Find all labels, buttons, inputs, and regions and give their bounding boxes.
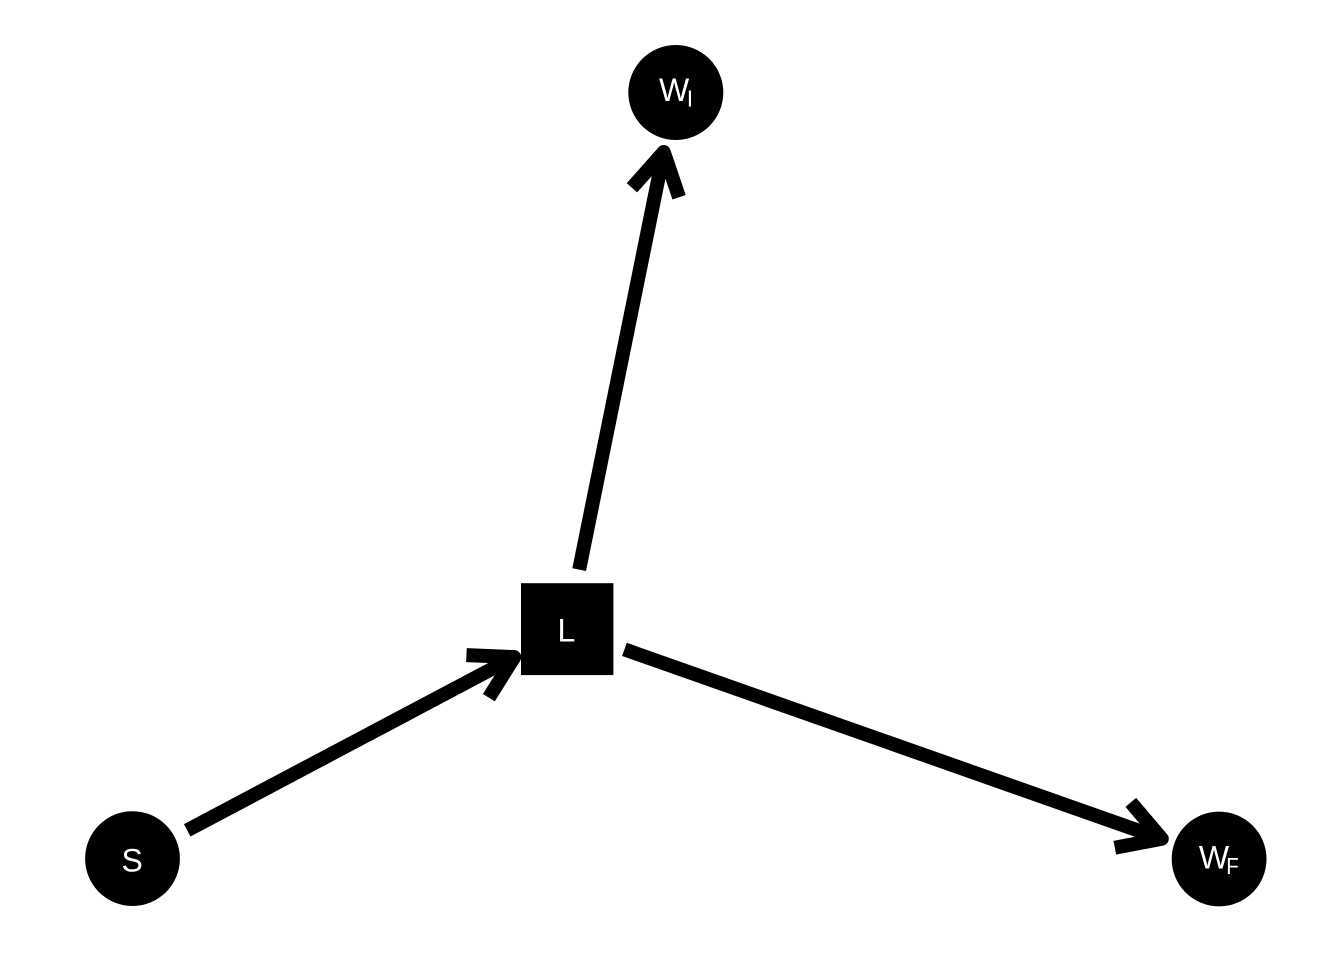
svg-text:S: S bbox=[122, 842, 143, 878]
arrowhead at WF bbox=[1115, 802, 1162, 847]
edge S to L bbox=[187, 655, 514, 830]
svg-text:W: W bbox=[1199, 839, 1230, 875]
edge L to WF bbox=[624, 649, 1161, 847]
arrowhead at L bbox=[466, 655, 514, 698]
edge L to WI bbox=[579, 152, 679, 570]
arrowhead at WI bbox=[632, 152, 679, 197]
node L (square) bbox=[521, 583, 613, 675]
svg-text:W: W bbox=[659, 72, 690, 108]
wire shaft L-WF bbox=[624, 649, 1161, 838]
svg-text:L: L bbox=[558, 613, 576, 649]
node WF (circle) bbox=[1172, 812, 1267, 907]
wire shaft S-L bbox=[187, 657, 514, 830]
svg-text:I: I bbox=[687, 86, 693, 112]
node WI (circle) bbox=[628, 45, 723, 140]
wire shaft L-WI bbox=[579, 152, 664, 570]
node S (circle) bbox=[85, 811, 180, 906]
svg-text:F: F bbox=[1226, 853, 1239, 879]
